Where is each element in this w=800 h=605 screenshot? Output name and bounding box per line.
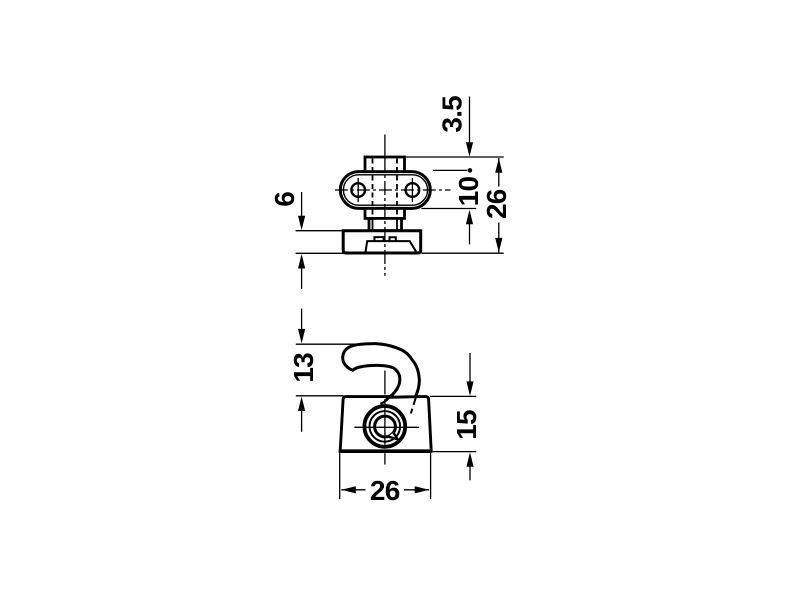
block B inner line left [372,218,374,230]
dim 15 stem lower [469,463,471,481]
extension line: base plate bottom left (6) [296,252,344,254]
hook hidden diagonal dashed [411,396,416,413]
circle middle thin [370,411,401,442]
dim 26 bottom arrow right [415,486,430,493]
dim 6 stem upper [301,192,303,226]
hook [343,344,420,398]
extension line: body bottom-right vertical (26) [430,453,432,500]
dim 6 arrow up [298,254,305,269]
svg-text:3.5: 3.5 [437,96,468,133]
extension line: body top left (13) [296,395,344,397]
dim 13 stem lower [301,407,303,432]
boss top tab right [390,237,396,241]
dim 26 right stem upper [498,158,500,187]
dim 15 arrow down [466,381,473,396]
hole right crosshair vertical [411,178,413,202]
dimension dot at 10 upper [468,168,473,173]
dim 10 arrow up [466,210,473,225]
body trapezoid [340,397,431,451]
circle outer bold [364,406,405,447]
extension line: bottom of base plate right (26) [421,252,503,254]
dim 13 stem upper [301,309,303,340]
centerline vertical bottom view seg1 [384,371,386,395]
svg-text:6: 6 [269,192,300,207]
dim 26 bottom line right seg [404,489,429,491]
svg-text:13: 13 [288,353,319,383]
dim 26 right arrow up [495,158,502,173]
extension line: base plate top left (6) [296,230,344,232]
centerline vertical bottom view seg3 [384,453,386,464]
extension line: body bottom right (15) [432,451,477,453]
extension line: top of plate (3.5/10) [433,169,467,171]
block A below plate [365,208,405,218]
dim 6 arrow down [298,216,305,231]
dim 3.5 arrow down [466,142,473,157]
svg-text:10: 10 [453,177,484,207]
circle inner bold [375,416,396,437]
extension line: body top right (15) [430,395,476,397]
hole right [406,183,420,197]
extension line: top of block (3.5/26) [406,156,504,158]
extension line: body bottom-left vertical (26) [339,453,341,500]
base plate [343,231,421,253]
dim 13 arrow up [298,397,305,412]
inner tail point [388,433,398,440]
body bottom thick edge [339,449,432,453]
top view vertical centerline (dash-dot through part) [384,158,386,276]
dim 26 bottom arrow left [341,486,356,493]
top block [365,157,405,172]
extension line: hook top (13) [296,343,378,345]
dim 26 right arrow down [495,238,502,253]
hidden line left [372,159,374,219]
plate inner stadium [343,175,427,205]
base plate interior boss trapezoid [366,241,417,252]
dim 26 bottom line left seg [341,489,365,491]
block B narrow [369,218,402,230]
hole left [351,183,365,197]
svg-text:15: 15 [451,410,482,440]
crosshair horizontal bottom view [354,426,419,428]
dim 15 stem upper [469,353,471,392]
boss top tab left [374,237,383,241]
svg-text:26: 26 [481,189,512,219]
hidden line right [396,159,398,219]
top view vertical centerline (upper solid part) [384,135,386,156]
centerline vertical bottom view seg2 [384,399,386,445]
extension line: bottom of plate (10) [421,208,476,210]
hole left crosshair vertical [357,178,359,202]
hook inner continuation curve [380,397,389,404]
dim 6 stem lower [301,264,303,289]
svg-text:26: 26 [370,475,400,506]
dim 3.5 stem [469,97,471,154]
block B inner line right [396,218,398,230]
plate outer stadium [340,172,430,209]
horizontal centerline through holes [335,189,451,191]
dim 13 arrow down [298,329,305,344]
dim 15 arrow up [466,452,473,467]
dim 10 stem [469,221,471,244]
dim 26 right stem lower [498,223,500,253]
